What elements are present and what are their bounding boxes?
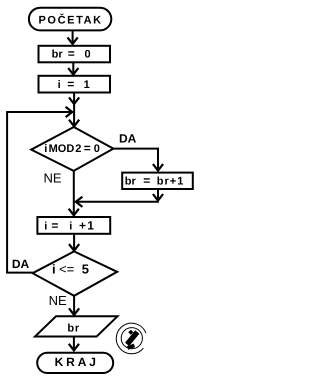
svg-text:NE: NE: [44, 171, 62, 186]
svg-text:POČETAK: POČETAK: [39, 13, 103, 26]
svg-text:i: i: [44, 221, 47, 233]
decision diamond 2: i <= 5: [33, 251, 118, 295]
svg-text:MOD: MOD: [49, 143, 75, 155]
wire diamond2 to output br: [73, 296, 75, 315]
svg-text:1: 1: [87, 219, 94, 233]
process box br = 0: [39, 46, 111, 63]
svg-text:=: =: [143, 173, 150, 187]
svg-text:br+1: br+1: [157, 175, 185, 187]
decision diamond 1: i MOD 2 = 0: [31, 127, 113, 171]
printer icon zigzag glyph: [127, 330, 137, 348]
process box i = 1: [39, 76, 111, 93]
wire i=i+1 to diamond 2: [73, 235, 75, 251]
terminator KRAJ: [37, 353, 113, 373]
process box br = br+1: [122, 173, 193, 189]
svg-text:0: 0: [94, 143, 100, 155]
svg-text:1: 1: [84, 79, 90, 91]
svg-text:i: i: [44, 143, 47, 155]
wire br to KRAJ: [73, 337, 75, 351]
svg-text:KRAJ: KRAJ: [55, 355, 99, 369]
wire merge back to main line: [76, 201, 159, 203]
printer icon inner circle: [121, 328, 142, 349]
svg-text:0: 0: [85, 49, 91, 61]
svg-text:=: =: [68, 47, 75, 61]
svg-text:br: br: [52, 49, 64, 61]
svg-text:=: =: [67, 77, 74, 91]
process box i = i +1: [37, 217, 110, 234]
terminator POČETAK: [29, 8, 111, 31]
wire POČETAK to br=0: [72, 31, 74, 44]
svg-text:DA: DA: [119, 132, 137, 146]
output parallelogram br: [35, 316, 118, 336]
svg-text:=: =: [84, 141, 91, 155]
svg-text:<=: <=: [59, 261, 74, 276]
svg-text:+: +: [79, 219, 86, 233]
svg-text:br: br: [67, 322, 80, 334]
printer icon outer arc: [116, 323, 146, 354]
wire diamond1 to i = i +1: [73, 171, 75, 215]
wire br=0 to i=1: [72, 63, 74, 74]
svg-text:br: br: [125, 175, 137, 187]
wire i=1 down to junction and diamond 1: [73, 94, 75, 127]
wire DA branch to br=br+1: [113, 149, 158, 171]
svg-text:2: 2: [75, 143, 81, 155]
svg-text:5: 5: [82, 261, 89, 276]
wire br=br+1 down: [157, 190, 159, 200]
svg-text:i: i: [58, 79, 61, 91]
loop-back wire from i<=5 DA: left, up, into junction: [7, 112, 72, 273]
svg-text:i: i: [52, 261, 56, 276]
svg-text:=: =: [51, 219, 58, 233]
svg-text:i: i: [69, 221, 72, 233]
svg-text:DA: DA: [12, 257, 30, 271]
svg-text:NE: NE: [49, 293, 67, 308]
